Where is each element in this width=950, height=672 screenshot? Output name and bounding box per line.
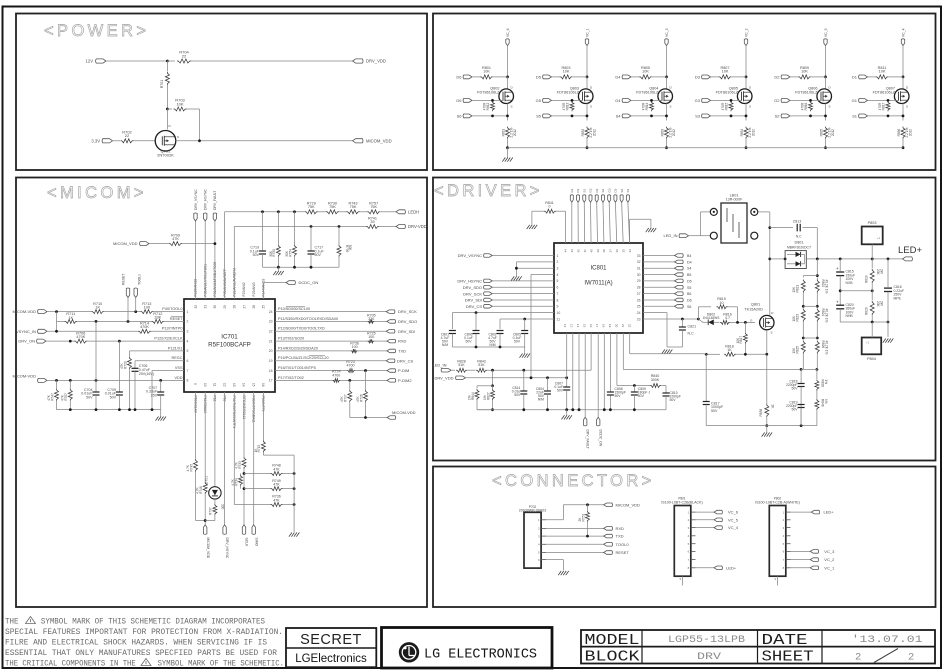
warning triangle 1: [26, 617, 36, 624]
svg-text:47K: 47K: [356, 395, 360, 402]
resistor R747 47K: [56, 380, 58, 388]
wire pin14 down: [243, 392, 245, 457]
svg-text:14: 14: [576, 324, 580, 328]
terminal VC_6 conn: [714, 510, 722, 514]
svg-text:SCLK: SCLK: [245, 538, 249, 548]
wire D4 to R805: [631, 76, 640, 78]
svg-text:18: 18: [602, 324, 606, 328]
CONNECTOR section box: [433, 467, 936, 608]
svg-text:P40/TOOL0: P40/TOOL0: [162, 307, 182, 311]
svg-text:24: 24: [637, 311, 641, 315]
wire pin12 to DRV_HSYNC: [224, 392, 226, 525]
node driver rail: [546, 408, 549, 411]
svg-text:24: 24: [269, 310, 273, 314]
svg-text:IS100-L0BT-C2B(BLACK): IS100-L0BT-C2B(BLACK): [661, 500, 702, 504]
wire row23: [275, 320, 367, 322]
svg-text:470R: 470R: [562, 102, 566, 110]
wire DRV-VDD row: [233, 227, 235, 300]
svg-text:19: 19: [269, 359, 273, 363]
terminal VC_5 conn: [714, 518, 722, 522]
wire pin10 to caps: [452, 312, 554, 314]
capacitor C818 2200pF 50V: [800, 369, 802, 383]
wire pin12 down: [566, 333, 568, 378]
svg-text:R844: R844: [471, 392, 475, 400]
wire driver gnd rail: [477, 409, 666, 411]
svg-text:11: 11: [557, 317, 561, 321]
wire R733 to SCLK: [243, 469, 245, 525]
node divider mid: [491, 384, 494, 387]
svg-text:32: 32: [194, 305, 198, 309]
svg-text:D1: D1: [852, 75, 858, 80]
terminal B4: [643, 255, 675, 257]
svg-text:470K: 470K: [140, 325, 149, 329]
wire DRV_FAULT to IC: [214, 221, 216, 299]
terminal B5: [643, 274, 675, 276]
svg-text:MODEL: MODEL: [585, 632, 640, 649]
svg-text:MICOM-VDD: MICOM-VDD: [12, 374, 36, 379]
svg-text:9: 9: [193, 383, 197, 385]
svg-text:D4: D4: [687, 260, 692, 264]
svg-text:VC_6: VC_6: [506, 28, 510, 37]
wire R833 to rail: [666, 139, 668, 148]
svg-text:FDT86106LZ: FDT86106LZ: [716, 90, 739, 94]
terminal MICOM-VDD pullup right: [387, 416, 396, 420]
node R703 tap: [166, 108, 169, 111]
svg-text:LED_IN: LED_IN: [663, 233, 677, 238]
terminal D4: [643, 261, 675, 263]
node C805 top: [523, 318, 526, 321]
wire R715 to rail: [262, 452, 264, 455]
svg-text:3: 3: [187, 330, 189, 334]
wire anode to D801: [770, 258, 785, 260]
node C709 top: [118, 340, 121, 343]
wire bottom rail driver: [706, 425, 817, 427]
divider chain top: [816, 259, 818, 277]
wire D1 to IC: [577, 202, 579, 243]
wire R746 to junction: [204, 494, 206, 525]
terminal RXD conn: [604, 527, 613, 531]
wire P804 to rail: [871, 322, 873, 338]
svg-text:S2: S2: [601, 188, 605, 192]
wire pin11 to caps: [500, 318, 554, 320]
capacitor C808 1500pF 50V: [607, 391, 614, 393]
node VDD C704: [95, 379, 98, 382]
wire R745 to junction: [195, 472, 197, 521]
svg-text:33K: 33K: [154, 316, 161, 320]
svg-text:20: 20: [614, 324, 618, 328]
wire R712 to pin2: [164, 320, 184, 322]
svg-text:DRV_SDO: DRV_SDO: [398, 319, 417, 324]
svg-text:D5: D5: [687, 279, 692, 283]
terminal DRV-VDD: [396, 225, 405, 229]
wire pin22 to gate pulldown row: [629, 333, 631, 354]
svg-text:D3: D3: [695, 75, 701, 80]
node R750 top: [277, 210, 280, 213]
wire R844 to rail: [476, 400, 478, 410]
svg-text:40.2K 1%: 40.2K 1%: [824, 280, 828, 294]
svg-text:470R: 470R: [642, 102, 646, 110]
svg-text:R823: R823: [796, 314, 800, 322]
node source Q804: [665, 115, 668, 118]
svg-text:13: 13: [232, 383, 236, 387]
svg-text:S: S: [177, 135, 179, 139]
svg-text:R720: R720: [123, 361, 127, 369]
node rail: [128, 408, 131, 411]
wire node to R703: [167, 108, 172, 110]
svg-text:26: 26: [252, 305, 256, 309]
node rail C815: [839, 258, 842, 261]
svg-text:VC_5: VC_5: [728, 517, 739, 522]
svg-text:43: 43: [570, 249, 574, 253]
svg-text:D3: D3: [614, 188, 618, 192]
ground source rail: [766, 426, 768, 433]
node driver rail: [603, 408, 606, 411]
node DRV_VDD C804: [546, 376, 549, 379]
svg-text:P22/ANI2: P22/ANI2: [242, 282, 246, 296]
capacitor C709 0.01uF 50V: [118, 341, 120, 392]
svg-text:17: 17: [595, 324, 599, 328]
svg-text:50V: 50V: [514, 393, 521, 397]
resistor R846 1%: [815, 399, 819, 410]
node rail: [118, 408, 121, 411]
svg-text:DRV: DRV: [697, 651, 722, 663]
node rail C813: [816, 258, 819, 261]
svg-text:S: S: [906, 105, 908, 109]
capacitor C819 2200pF 50V: [798, 404, 805, 406]
wire pin18 down: [603, 333, 605, 410]
node TOOL0 junction: [134, 310, 137, 313]
resistor R824 40.2K 1%: [815, 309, 819, 322]
svg-text:S1: S1: [582, 188, 586, 192]
terminal RXD: [387, 339, 396, 343]
terminal D5: [643, 280, 675, 282]
wire source down: [507, 104, 509, 121]
wire VSYNC row: [47, 330, 138, 332]
wire pin7 VSS down: [152, 370, 184, 372]
wire P803 to rail: [871, 244, 873, 259]
title table: [581, 630, 935, 664]
svg-text:1%: 1%: [483, 395, 487, 400]
svg-text:S3: S3: [620, 188, 624, 192]
svg-text:REGC: REGC: [172, 356, 183, 360]
svg-text:100: 100: [144, 305, 150, 309]
wire R730-R743: [339, 211, 347, 213]
svg-text:VC_3: VC_3: [665, 28, 669, 37]
svg-text:IS100-L0BT-C2B-A(WHITE): IS100-L0BT-C2B-A(WHITE): [755, 500, 800, 504]
wire R831 to rail: [507, 139, 509, 148]
svg-text:12V: 12V: [86, 59, 94, 64]
wire sense row to dividers: [623, 368, 801, 370]
svg-text:50V: 50V: [791, 386, 798, 390]
svg-text:47K: 47K: [340, 395, 344, 402]
resistor R754 30K: [294, 212, 296, 245]
svg-text:2W: 2W: [879, 269, 883, 274]
svg-text:0: 0: [549, 204, 551, 208]
node driver rail: [578, 408, 581, 411]
svg-text:DRV_HSYNC: DRV_HSYNC: [225, 538, 229, 559]
node driver rail: [571, 408, 574, 411]
resistor R822 40.2K 1%: [816, 278, 818, 280]
svg-text:47K: 47K: [172, 237, 179, 241]
wire R713 to pin1: [153, 311, 184, 313]
terminal DRV_SCK: [386, 310, 395, 314]
svg-text:2: 2: [557, 260, 559, 264]
wire LED_IN to LB01: [689, 235, 701, 237]
wire R815 to gate node: [728, 306, 738, 308]
node rail R754: [293, 266, 296, 269]
svg-text:TOOL0: TOOL0: [616, 542, 630, 547]
wire pin1: [492, 255, 554, 257]
svg-text:DCDC_ON: DCDC_ON: [599, 430, 603, 447]
wire D3 to R807: [711, 76, 720, 78]
resistor R823 10K 1%: [801, 309, 805, 322]
svg-text:C813: C813: [793, 219, 802, 223]
wire G3 to gate: [711, 99, 742, 101]
terminal DRV_CS: [386, 359, 395, 363]
svg-text:P121/X1: P121/X1: [168, 346, 183, 350]
wire P801 pin8 LED+: [696, 567, 715, 569]
svg-text:30K: 30K: [269, 250, 273, 257]
wire S3 to source: [711, 115, 747, 117]
wire G2 to IC: [589, 202, 592, 243]
svg-text:RXD: RXD: [398, 339, 407, 344]
svg-text:NXB: NXB: [846, 281, 854, 285]
svg-text:30: 30: [213, 305, 217, 309]
wire DCDC_ON to pin25: [262, 283, 264, 299]
wire S2 to IC: [602, 202, 605, 243]
node gate R815: [736, 321, 739, 324]
svg-text:THE SYMBOL MARK OF THIS SC: THE SYMBOL MARK OF THIS SCHEMETIC DIAGRA…: [5, 617, 265, 627]
svg-text:RESET: RESET: [170, 317, 183, 321]
IC U701 R5F100BCAFP body: [184, 299, 275, 392]
terminal VC_3 conn: [810, 550, 818, 554]
svg-text:1N4148WS: 1N4148WS: [703, 316, 721, 320]
svg-text:P10/SD000/SCL00: P10/SD000/SCL00: [278, 307, 310, 311]
svg-text:330: 330: [220, 504, 224, 510]
ground output: [887, 322, 889, 337]
node D801 anode2: [784, 258, 787, 261]
terminal DCDC_ON: [286, 281, 295, 285]
svg-text:DRV_ON: DRV_ON: [18, 339, 35, 344]
svg-text:B5: B5: [687, 273, 691, 277]
wire G2 to gate: [790, 99, 821, 101]
node gate Q805: [730, 99, 733, 102]
svg-text:22: 22: [182, 53, 187, 58]
svg-text:2N7002K: 2N7002K: [157, 153, 174, 158]
svg-text:50V: 50V: [86, 396, 93, 400]
wire R809 to drain node: [811, 76, 826, 78]
wire pin5: [492, 280, 554, 282]
svg-text:20K: 20K: [876, 269, 880, 276]
wire R748 row: [244, 473, 271, 475]
svg-text:2: 2: [187, 320, 189, 324]
wire source down: [586, 104, 588, 121]
wire S3 to IC: [628, 202, 630, 243]
svg-text:R838: R838: [759, 409, 763, 417]
svg-text:1: 1: [187, 310, 189, 314]
svg-text:S: S: [771, 330, 773, 334]
svg-text:2012: 2012: [909, 129, 913, 136]
terminal MICOM_VDD bottom: [204, 525, 207, 535]
terminal DRV_FAULT: [584, 417, 587, 426]
node rail Q803: [586, 146, 589, 149]
svg-text:R827: R827: [486, 392, 490, 400]
svg-text:40: 40: [589, 249, 593, 253]
svg-text:29: 29: [637, 279, 641, 283]
wire source down: [825, 104, 827, 121]
terminal P-DIM: [387, 369, 396, 373]
svg-text:18: 18: [269, 369, 273, 373]
terminal S5: [643, 286, 675, 288]
svg-text:DRV_FAULT: DRV_FAULT: [586, 430, 590, 449]
svg-text:N.C: N.C: [688, 332, 695, 336]
wire P802 pin6 VC_3: [791, 550, 811, 552]
node R813 bottom: [571, 115, 574, 118]
node DRV_ON x70: [69, 340, 72, 343]
node driver rail: [522, 408, 525, 411]
svg-text:DRV_HSYNC: DRV_HSYNC: [204, 189, 208, 210]
svg-text:S: S: [749, 105, 751, 109]
svg-text:22: 22: [269, 330, 273, 334]
svg-text:D2: D2: [595, 188, 599, 192]
wire S5 to source: [552, 115, 588, 117]
svg-text:DRV_SDI: DRV_SDI: [465, 298, 482, 303]
wire D2 to R809: [790, 76, 799, 78]
resistor R726 47K: [365, 371, 367, 390]
node x96 top: [95, 320, 98, 323]
svg-text:P12/SD00/TXD0/TOOLTXD: P12/SD00/TXD0/TOOLTXD: [278, 327, 325, 331]
svg-text:MICOM_VDD: MICOM_VDD: [616, 502, 641, 507]
svg-text:47K: 47K: [273, 482, 280, 486]
wire C817 branch: [705, 354, 707, 401]
node source Q807: [902, 115, 905, 118]
node rail P803: [871, 258, 874, 261]
capacitor C816 0.22uF 250V: [887, 259, 889, 287]
svg-text:R821: R821: [796, 285, 800, 293]
svg-text:R839: R839: [821, 380, 825, 388]
wire VC_2 drain: [745, 46, 747, 77]
svg-text:B4: B4: [687, 254, 691, 258]
svg-text:S3: S3: [695, 114, 701, 119]
wire LED to R737: [214, 499, 216, 504]
node source Q802: [506, 115, 509, 118]
svg-text:5: 5: [557, 279, 559, 283]
wire row18: [275, 370, 347, 372]
wire pin9 down: [195, 392, 197, 459]
node R815 bottom: [730, 115, 733, 118]
node 12V junction: [166, 60, 169, 63]
wire R836 to rail: [902, 139, 904, 148]
capacitor C821 N.C: [681, 319, 683, 327]
pin circle LB01 3: [751, 208, 758, 215]
svg-text:D4: D4: [615, 75, 621, 80]
svg-text:2012: 2012: [831, 129, 835, 136]
svg-text:FDT86106LZ: FDT86106LZ: [557, 90, 580, 94]
svg-text:DRV_SDO: DRV_SDO: [463, 285, 482, 290]
wire pin24 to ground: [643, 312, 667, 314]
svg-text:LED+: LED+: [898, 245, 922, 256]
resistor R817 10K: [744, 322, 746, 332]
resistor R717 47K: [349, 380, 351, 390]
svg-text:S3: S3: [626, 188, 630, 192]
svg-text:MICOM_VDD: MICOM_VDD: [113, 241, 138, 246]
node cap rail C806: [475, 346, 478, 349]
svg-text:1: 1: [557, 254, 559, 258]
svg-text:10K: 10K: [563, 69, 570, 73]
svg-text:1%: 1%: [824, 380, 828, 385]
svg-text:22: 22: [627, 324, 631, 328]
svg-text:D6: D6: [687, 298, 692, 302]
svg-text:R824: R824: [821, 309, 825, 317]
wire pin16 down: [262, 392, 264, 440]
capacitor C820 350uF 100V: [836, 304, 844, 306]
wire pin6: [492, 286, 554, 288]
node div row1: [816, 274, 819, 277]
svg-text:RXD: RXD: [616, 526, 625, 531]
svg-text:470R: 470R: [801, 102, 805, 110]
svg-text:TXD: TXD: [616, 534, 624, 539]
svg-text:S4: S4: [687, 267, 691, 271]
svg-text:19: 19: [608, 324, 612, 328]
terminal S4: [643, 267, 675, 269]
svg-text:SHEET: SHEET: [762, 649, 814, 666]
node rail R736: [293, 503, 296, 506]
node Q804 drain junction: [665, 76, 668, 79]
pin circle LB01 4: [751, 232, 758, 239]
wire R827 to rail: [492, 400, 494, 410]
svg-text:P17/TI02/TO02: P17/TI02/TO02: [278, 376, 304, 380]
node rail R750: [277, 266, 280, 269]
svg-text:75K: 75K: [370, 205, 377, 209]
svg-text:S1: S1: [852, 114, 858, 119]
svg-text:BLOCK: BLOCK: [585, 649, 640, 666]
svg-text:'13.07.01: '13.07.01: [852, 634, 923, 646]
svg-text:Q801: Q801: [751, 302, 760, 306]
svg-text:4: 4: [187, 339, 189, 343]
svg-text:FDT86106LZ: FDT86106LZ: [873, 90, 896, 94]
wire R703 to corner: [187, 108, 200, 110]
svg-text:D801: D801: [794, 240, 803, 244]
node rail: [151, 408, 154, 411]
terminal LED+ conn2: [811, 510, 819, 514]
svg-text:30K: 30K: [285, 250, 289, 257]
node R812 bottom: [491, 115, 494, 118]
svg-text:50V: 50V: [615, 394, 622, 398]
node R754 top: [293, 210, 296, 213]
node MICOM_VDD junction: [204, 519, 207, 522]
svg-text:35: 35: [621, 249, 625, 253]
svg-text:G2: G2: [774, 98, 780, 103]
node gate net left: [697, 318, 700, 321]
terminal S6: [643, 305, 675, 307]
node R748 left: [243, 472, 246, 475]
svg-text:9: 9: [557, 305, 559, 309]
node Q807 drain junction: [902, 76, 905, 79]
svg-text:2: 2: [855, 652, 861, 664]
svg-text:13R-0D0F: 13R-0D0F: [726, 197, 743, 201]
svg-text:R717: R717: [344, 394, 348, 402]
svg-text:42: 42: [577, 249, 581, 253]
wire R803 to drain node: [572, 76, 587, 78]
wire P802 pin7 VC_2: [791, 559, 811, 561]
svg-text:P16/TI01/TO01/INTP5: P16/TI01/TO01/INTP5: [278, 366, 316, 370]
svg-text:DCDC_ON: DCDC_ON: [299, 280, 319, 285]
svg-text:S: S: [511, 105, 513, 109]
node R749 left: [243, 487, 246, 490]
node rail C717: [310, 266, 313, 269]
node rail: [95, 408, 98, 411]
ground pins 2-3: [511, 276, 514, 280]
